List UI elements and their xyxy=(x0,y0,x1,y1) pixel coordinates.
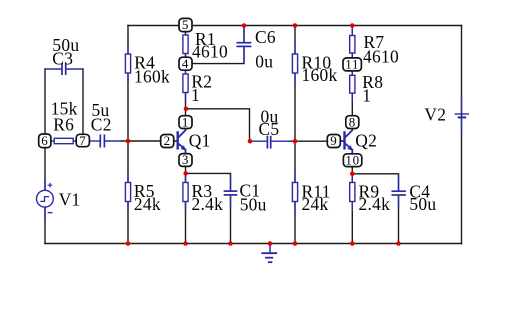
wire Q1 branch vertical lower xyxy=(185,166,187,244)
node 11 xyxy=(343,57,361,72)
node 4 xyxy=(179,56,192,71)
node 9 xyxy=(327,133,340,148)
transistor Q1 xyxy=(174,129,187,154)
wire right branch (V2) xyxy=(461,26,463,244)
junction dot rail ground xyxy=(268,241,273,246)
svg-text:Q1: Q1 xyxy=(189,131,211,151)
wire C4 to bottom rail xyxy=(398,196,400,244)
wire Q2 branch vertical lower xyxy=(351,166,353,244)
junction dot collector tap xyxy=(184,107,189,112)
svg-text:11: 11 xyxy=(345,57,359,72)
wire emitter tap to C1 xyxy=(186,173,231,191)
resistor R1 xyxy=(183,32,188,58)
capacitor C2 xyxy=(89,135,121,146)
wire C1 to bottom rail xyxy=(230,196,232,244)
svg-text:1: 1 xyxy=(362,85,371,105)
svg-text:2: 2 xyxy=(164,133,171,148)
wire node 4 to C6 xyxy=(191,47,244,64)
svg-text:1: 1 xyxy=(191,85,200,105)
wire collector tap to C5 xyxy=(186,109,250,141)
resistor R7 xyxy=(350,28,355,58)
junction dot rail R9 xyxy=(350,241,355,246)
resistor R4 xyxy=(125,44,130,83)
wire node7 vertical xyxy=(82,69,84,137)
junction dot C5 corner xyxy=(248,139,253,144)
junction dot rail R11 xyxy=(293,241,298,246)
junction dot rail C1 xyxy=(228,241,233,246)
wire R10/R11 branch xyxy=(294,26,296,244)
capacitor C6 xyxy=(237,27,250,61)
wire base line to node 2 xyxy=(122,140,163,142)
svg-text:C3: C3 xyxy=(52,48,73,68)
svg-text:24k: 24k xyxy=(134,194,161,214)
junction dot Q2 emitter xyxy=(350,172,355,177)
junction dot C2/R4R5 xyxy=(126,139,131,144)
resistor R3 xyxy=(183,173,188,210)
node 5 xyxy=(179,17,192,32)
svg-text:0u: 0u xyxy=(255,52,273,72)
resistor R5 xyxy=(125,173,130,212)
wire top rail xyxy=(128,25,462,27)
junction dot rail R5 xyxy=(126,241,131,246)
svg-text:50u: 50u xyxy=(409,194,436,214)
resistor R2 xyxy=(183,70,188,101)
resistor R10 xyxy=(292,44,297,83)
svg-text:10: 10 xyxy=(345,152,359,167)
svg-text:C2: C2 xyxy=(91,114,112,134)
node 1 xyxy=(179,114,192,129)
svg-text:R6: R6 xyxy=(53,114,74,134)
junction dot R7 top xyxy=(350,23,355,28)
node 6 xyxy=(39,133,51,148)
ground xyxy=(262,244,276,263)
wire Q1 branch vertical upper xyxy=(185,32,187,116)
wire bottom rail xyxy=(45,243,462,245)
svg-text:1: 1 xyxy=(182,114,189,129)
svg-text:160k: 160k xyxy=(302,65,338,85)
node 8 xyxy=(346,114,359,129)
svg-text:C5: C5 xyxy=(259,119,280,139)
svg-text:C6: C6 xyxy=(255,27,276,47)
svg-text:7: 7 xyxy=(79,133,86,148)
capacitor C1 xyxy=(225,175,237,209)
svg-text:9: 9 xyxy=(330,133,337,148)
node 2 xyxy=(161,133,174,148)
svg-text:50u: 50u xyxy=(240,194,267,214)
wire left branch V1 vertical xyxy=(44,69,46,244)
svg-text:160k: 160k xyxy=(134,66,170,86)
junction dot Q1 emitter xyxy=(183,171,188,176)
capacitor C4 xyxy=(392,175,405,209)
resistor R6 xyxy=(51,138,76,143)
junction dot rail C4 xyxy=(396,241,401,246)
wire R4/R5 branch xyxy=(127,26,129,244)
wire C6 top lead xyxy=(243,26,245,43)
junction dot base Q2 xyxy=(293,139,298,144)
svg-text:4610: 4610 xyxy=(363,47,399,67)
svg-text:Q2: Q2 xyxy=(355,131,377,151)
node 7 xyxy=(76,133,89,148)
transistor Q2 xyxy=(341,129,354,154)
svg-text:6: 6 xyxy=(41,133,48,148)
svg-text:2.4k: 2.4k xyxy=(192,194,224,214)
node 3 xyxy=(179,152,192,167)
svg-text:4610: 4610 xyxy=(192,42,228,62)
resistor R11 xyxy=(292,173,297,212)
source V1 xyxy=(37,180,54,218)
battery V2 xyxy=(455,96,468,134)
node 10 xyxy=(343,152,361,167)
svg-text:24k: 24k xyxy=(302,194,329,214)
svg-text:V2: V2 xyxy=(424,104,446,124)
svg-text:V1: V1 xyxy=(59,190,81,210)
wire C5 to node 9 xyxy=(288,140,328,142)
wire emitter tap 2 to C4 xyxy=(352,174,398,191)
capacitor C3 xyxy=(45,64,83,74)
resistor R8 xyxy=(350,71,355,102)
svg-text:4: 4 xyxy=(182,56,189,71)
junction dot R10 top xyxy=(293,23,298,28)
svg-text:2.4k: 2.4k xyxy=(359,194,391,214)
capacitor C5 xyxy=(250,137,289,148)
resistor R9 xyxy=(350,174,355,211)
junction dot rail R3 xyxy=(183,241,188,246)
wire Q2 branch vertical upper xyxy=(351,26,353,117)
svg-text:3: 3 xyxy=(182,152,189,167)
junction dot C6 top xyxy=(242,23,247,28)
svg-text:8: 8 xyxy=(349,114,356,129)
svg-text:5: 5 xyxy=(182,17,189,32)
